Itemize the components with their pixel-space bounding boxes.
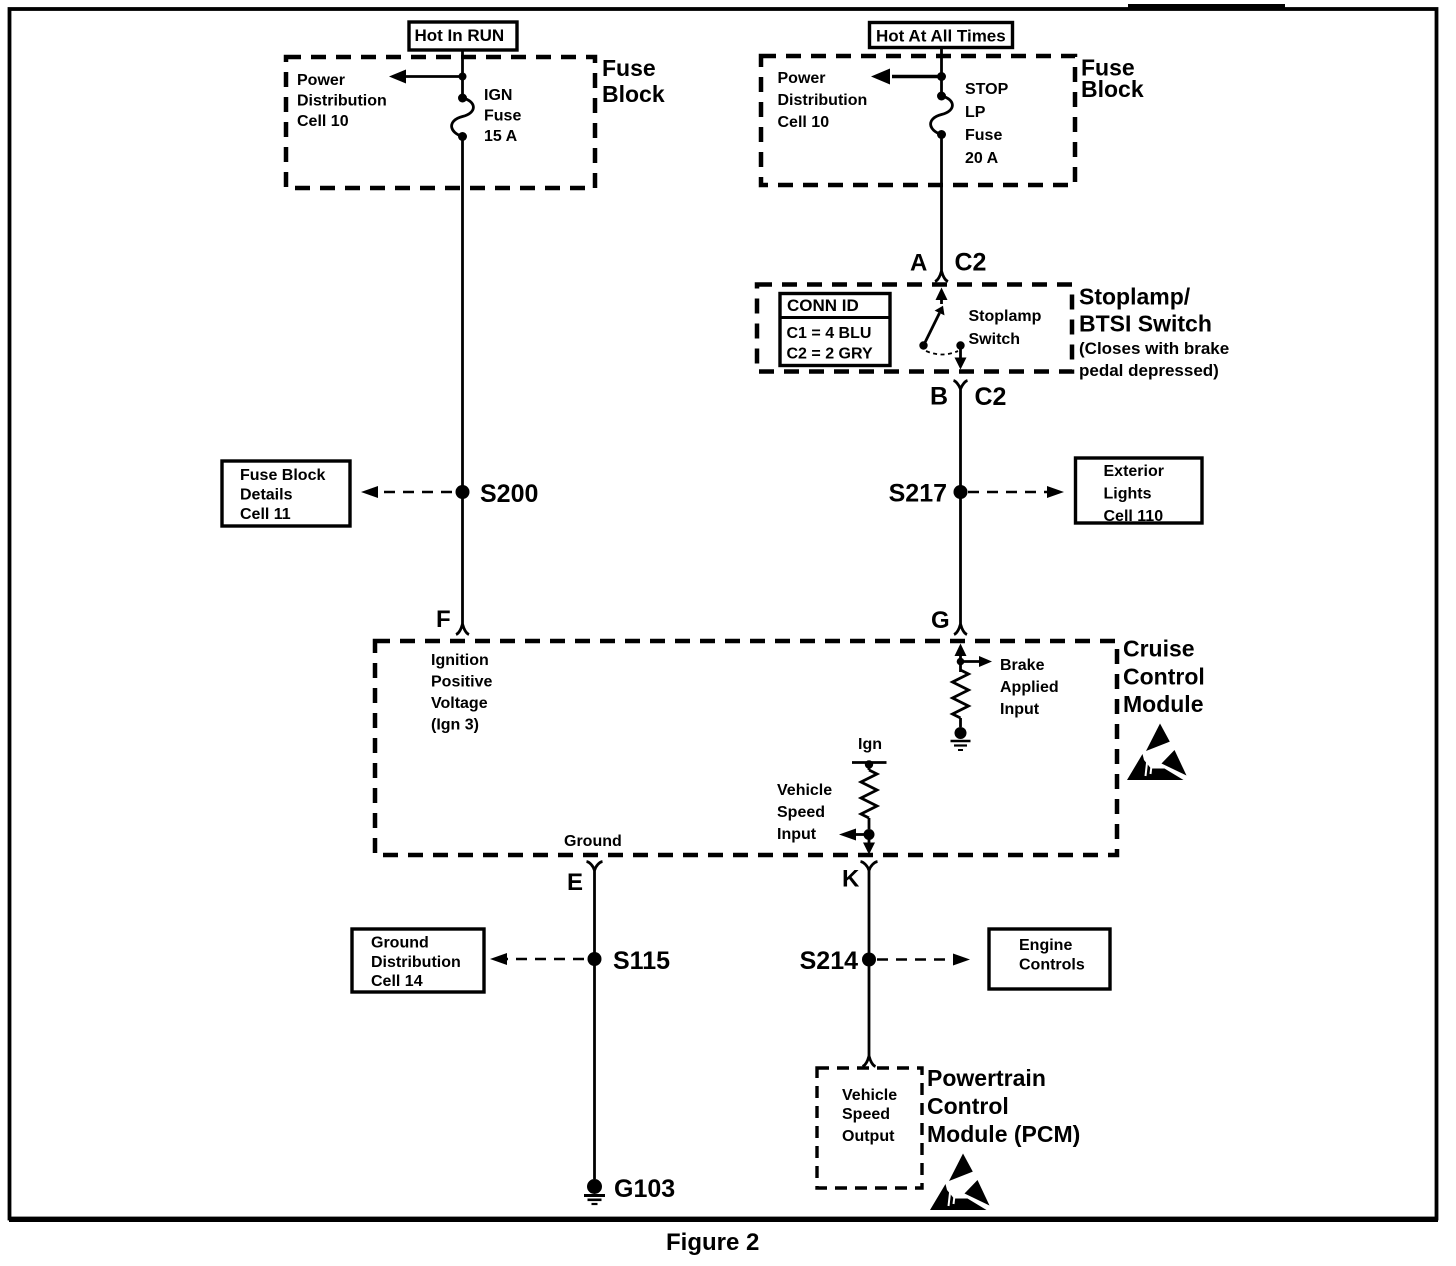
svg-text:Block: Block	[1081, 76, 1144, 102]
svg-text:Vehicle: Vehicle	[842, 1087, 897, 1104]
svg-text:Cell 10: Cell 10	[778, 114, 830, 131]
svg-text:Control: Control	[1123, 664, 1205, 690]
svg-text:Hot At All Times: Hot At All Times	[876, 27, 1006, 46]
svg-text:Cell 11: Cell 11	[240, 506, 291, 523]
svg-text:G103: G103	[614, 1175, 675, 1203]
svg-text:(Closes with brake: (Closes with brake	[1079, 339, 1229, 358]
svg-text:Details: Details	[240, 487, 293, 504]
svg-text:S200: S200	[480, 480, 538, 508]
svg-text:A: A	[910, 250, 927, 277]
svg-text:Fuse: Fuse	[484, 108, 521, 125]
svg-text:IGN: IGN	[484, 87, 512, 104]
svg-text:Fuse: Fuse	[602, 55, 656, 81]
svg-text:pedal depressed): pedal depressed)	[1079, 361, 1219, 380]
svg-text:Powertrain: Powertrain	[927, 1065, 1046, 1091]
svg-text:Fuse: Fuse	[965, 127, 1002, 144]
svg-text:Exterior: Exterior	[1104, 463, 1164, 480]
svg-text:C2: C2	[975, 383, 1007, 411]
svg-text:E: E	[567, 869, 583, 896]
svg-text:Stoplamp/: Stoplamp/	[1079, 284, 1191, 310]
svg-text:C2 = 2 GRY: C2 = 2 GRY	[787, 346, 873, 363]
svg-text:Distribution: Distribution	[297, 93, 387, 110]
svg-text:Applied: Applied	[1000, 679, 1059, 696]
svg-text:Ign: Ign	[858, 736, 882, 753]
svg-text:S217: S217	[889, 480, 947, 508]
svg-text:Power: Power	[778, 70, 826, 87]
svg-text:Module (PCM): Module (PCM)	[927, 1121, 1080, 1147]
svg-text:BTSI Switch: BTSI Switch	[1079, 311, 1212, 337]
svg-text:Voltage: Voltage	[431, 695, 488, 712]
svg-text:Controls: Controls	[1019, 957, 1085, 974]
svg-text:Input: Input	[777, 826, 817, 843]
svg-text:C1 = 4 BLU: C1 = 4 BLU	[787, 325, 872, 342]
svg-text:Cell 14: Cell 14	[371, 973, 423, 990]
svg-text:B: B	[930, 383, 948, 411]
svg-text:Stoplamp: Stoplamp	[969, 308, 1042, 325]
svg-text:C2: C2	[955, 249, 987, 277]
svg-text:20 A: 20 A	[965, 150, 999, 167]
svg-text:Control: Control	[927, 1093, 1009, 1119]
svg-text:Engine: Engine	[1019, 937, 1072, 954]
svg-text:Distribution: Distribution	[778, 92, 868, 109]
svg-text:F: F	[436, 606, 451, 633]
svg-text:LP: LP	[965, 104, 986, 121]
svg-text:G: G	[931, 607, 950, 634]
svg-text:Hot In RUN: Hot In RUN	[415, 26, 505, 45]
svg-text:Cruise: Cruise	[1123, 636, 1195, 662]
svg-text:S115: S115	[613, 947, 670, 975]
svg-text:Ignition: Ignition	[431, 652, 489, 669]
svg-text:Lights: Lights	[1104, 486, 1152, 503]
svg-text:Block: Block	[602, 81, 665, 107]
svg-text:Fuse Block: Fuse Block	[240, 467, 325, 484]
svg-text:Brake: Brake	[1000, 657, 1045, 674]
svg-text:(Ign 3): (Ign 3)	[431, 717, 479, 734]
svg-text:Ground: Ground	[371, 935, 429, 952]
svg-text:Ground: Ground	[564, 833, 622, 850]
svg-text:Speed: Speed	[842, 1106, 890, 1123]
svg-text:Switch: Switch	[969, 331, 1021, 348]
svg-text:CONN ID: CONN ID	[787, 296, 859, 315]
svg-text:15 A: 15 A	[484, 128, 518, 145]
svg-text:K: K	[842, 866, 860, 893]
svg-text:Positive: Positive	[431, 674, 492, 691]
svg-text:S214: S214	[800, 947, 858, 975]
svg-text:Module: Module	[1123, 691, 1204, 717]
svg-text:Output: Output	[842, 1128, 895, 1145]
svg-text:Figure 2: Figure 2	[666, 1229, 759, 1256]
svg-text:Speed: Speed	[777, 804, 825, 821]
svg-text:Distribution: Distribution	[371, 954, 461, 971]
svg-text:Input: Input	[1000, 701, 1040, 718]
svg-text:Cell 10: Cell 10	[297, 113, 349, 130]
svg-text:Vehicle: Vehicle	[777, 782, 832, 799]
svg-text:Cell 110: Cell 110	[1104, 508, 1164, 525]
svg-text:Power: Power	[297, 72, 345, 89]
svg-text:STOP: STOP	[965, 81, 1009, 98]
